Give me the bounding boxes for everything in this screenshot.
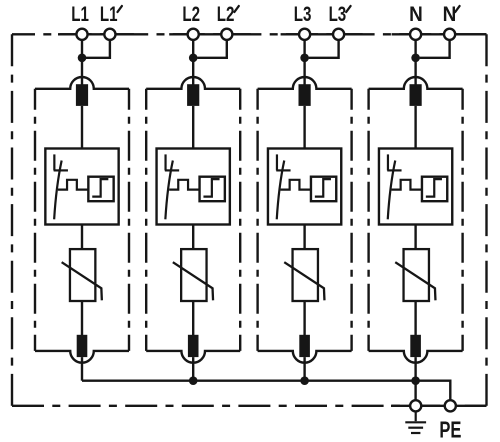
svg-text:L1: L1 xyxy=(100,1,118,25)
svg-text:L1: L1 xyxy=(71,1,89,25)
svg-text:L3: L3 xyxy=(329,1,347,25)
svg-text:L2: L2 xyxy=(217,1,235,25)
svg-text:L2: L2 xyxy=(182,1,200,25)
svg-text:N: N xyxy=(409,3,423,26)
svg-text:PE: PE xyxy=(439,418,461,442)
svg-text:L3: L3 xyxy=(294,1,312,25)
svg-text:N: N xyxy=(443,3,457,26)
